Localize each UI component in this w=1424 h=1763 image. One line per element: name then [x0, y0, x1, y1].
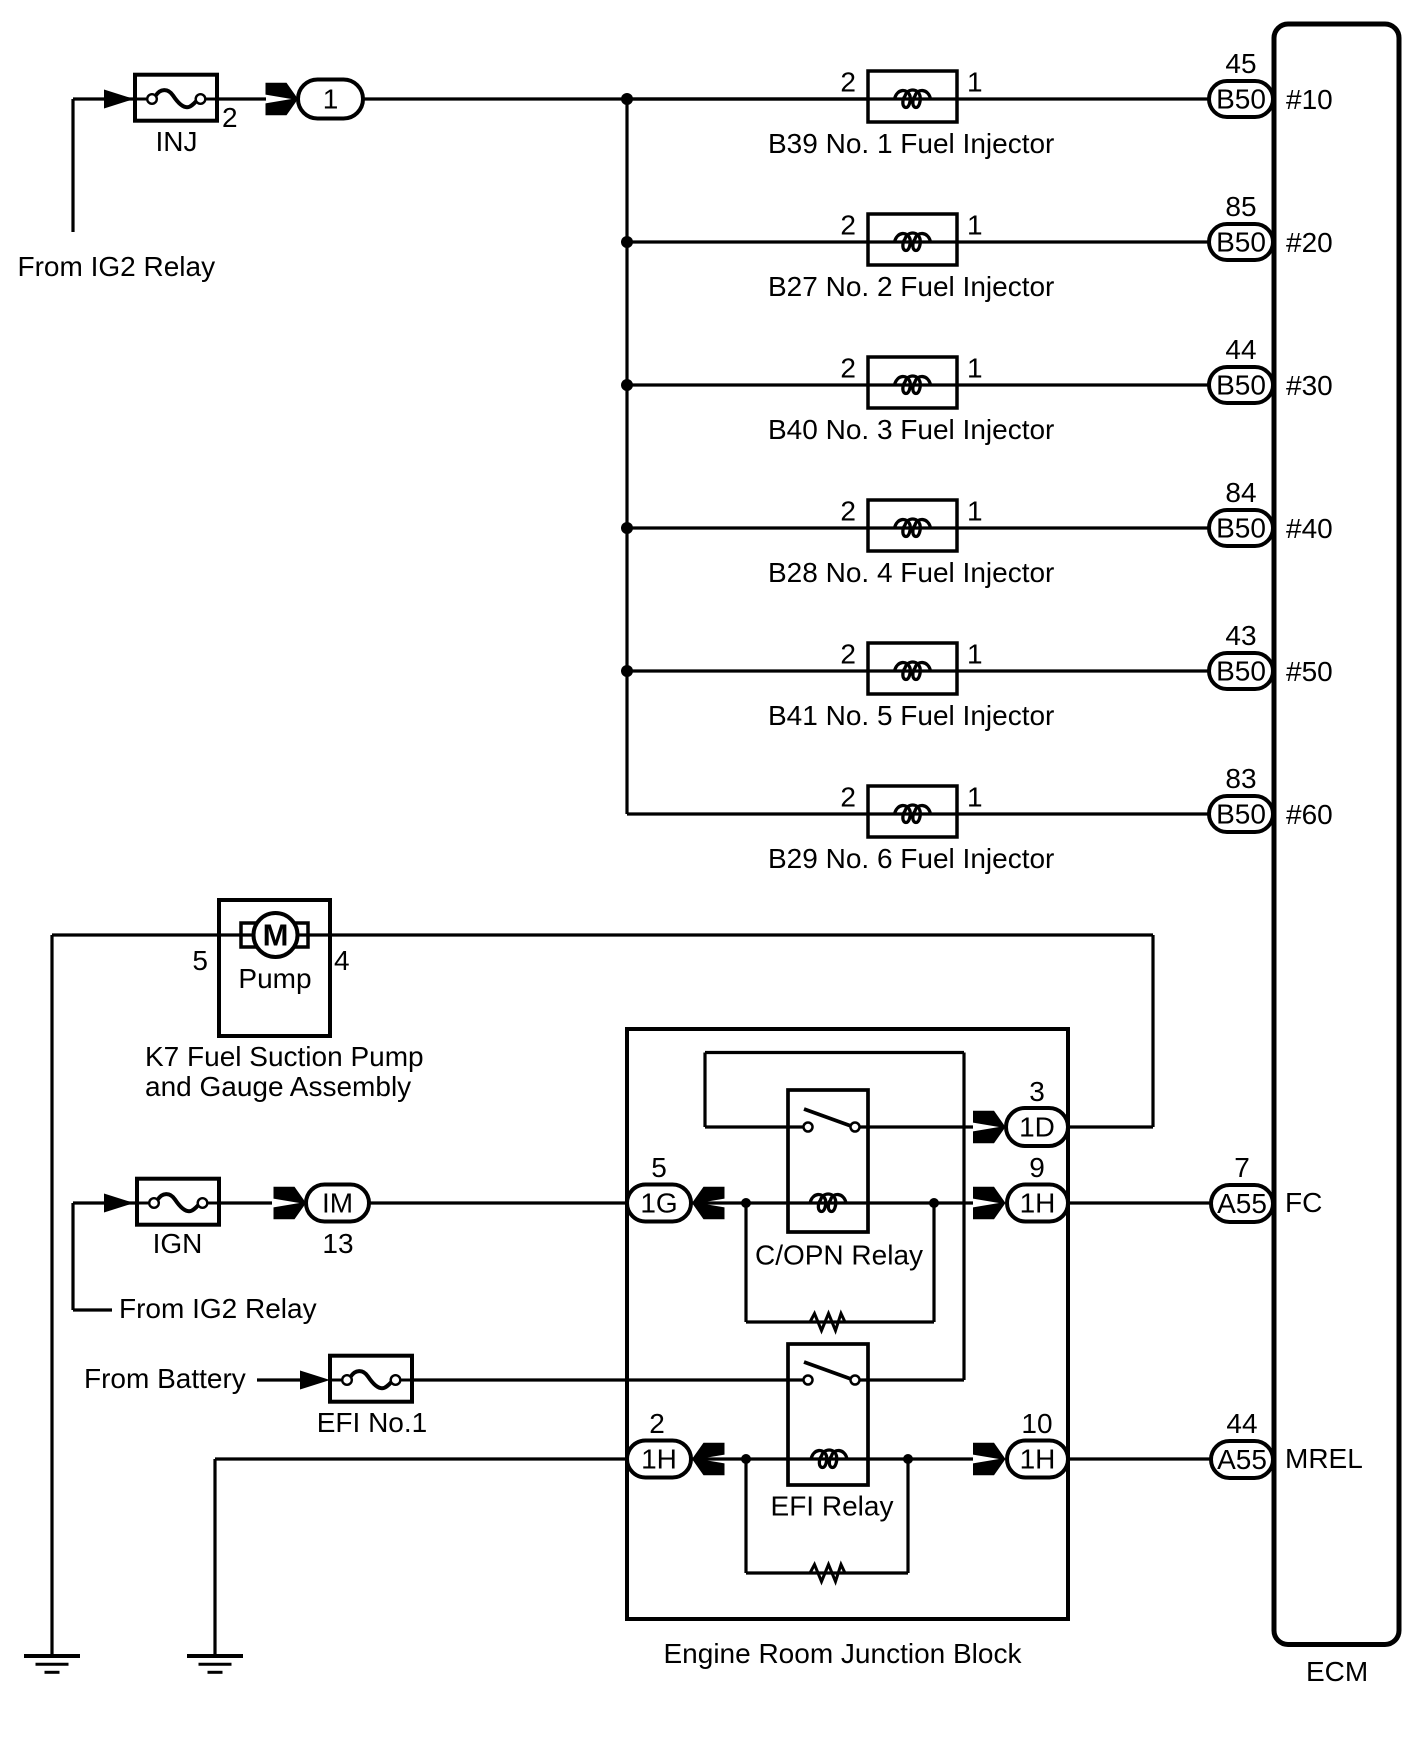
svg-text:B50: B50	[1216, 370, 1266, 401]
svg-text:A55: A55	[1217, 1444, 1267, 1475]
svg-text:1: 1	[967, 67, 983, 98]
svg-text:1: 1	[967, 782, 983, 813]
svg-text:10: 10	[1021, 1408, 1052, 1439]
svg-text:A55: A55	[1217, 1188, 1267, 1219]
svg-text:B50: B50	[1216, 799, 1266, 830]
svg-text:1: 1	[967, 210, 983, 241]
svg-text:1: 1	[967, 353, 983, 384]
svg-text:EFI No.1: EFI No.1	[317, 1407, 427, 1438]
svg-text:#40: #40	[1286, 513, 1333, 544]
svg-text:2: 2	[840, 353, 856, 384]
svg-text:B39 No. 1 Fuel Injector: B39 No. 1 Fuel Injector	[768, 128, 1054, 159]
svg-text:1: 1	[967, 496, 983, 527]
svg-text:B50: B50	[1216, 656, 1266, 687]
svg-text:Engine Room Junction Block: Engine Room Junction Block	[664, 1638, 1023, 1669]
svg-text:44: 44	[1226, 1408, 1257, 1439]
svg-text:5: 5	[192, 945, 208, 976]
svg-text:2: 2	[840, 639, 856, 670]
svg-text:B50: B50	[1216, 513, 1266, 544]
svg-text:2: 2	[649, 1408, 665, 1439]
svg-text:44: 44	[1225, 334, 1256, 365]
svg-text:C/OPN Relay: C/OPN Relay	[755, 1240, 923, 1271]
svg-text:B40 No. 3 Fuel Injector: B40 No. 3 Fuel Injector	[768, 414, 1054, 445]
svg-text:9: 9	[1029, 1152, 1045, 1183]
svg-text:43: 43	[1225, 620, 1256, 651]
svg-text:From Battery: From Battery	[84, 1363, 246, 1394]
svg-text:7: 7	[1234, 1152, 1250, 1183]
svg-text:B27 No. 2 Fuel Injector: B27 No. 2 Fuel Injector	[768, 271, 1054, 302]
svg-text:MREL: MREL	[1285, 1443, 1363, 1474]
svg-text:1H: 1H	[641, 1444, 677, 1475]
svg-text:83: 83	[1225, 763, 1256, 794]
svg-text:#50: #50	[1286, 656, 1333, 687]
svg-text:Pump: Pump	[238, 963, 311, 994]
svg-text:2: 2	[222, 102, 238, 133]
svg-text:1: 1	[967, 639, 983, 670]
svg-text:1: 1	[323, 84, 339, 115]
svg-text:K7 Fuel Suction Pump: K7 Fuel Suction Pump	[145, 1041, 424, 1072]
svg-text:EFI Relay: EFI Relay	[771, 1491, 894, 1522]
svg-text:2: 2	[840, 210, 856, 241]
svg-text:#30: #30	[1286, 370, 1333, 401]
svg-text:B28 No. 4 Fuel Injector: B28 No. 4 Fuel Injector	[768, 557, 1054, 588]
svg-text:B29 No. 6 Fuel Injector: B29 No. 6 Fuel Injector	[768, 843, 1054, 874]
svg-text:3: 3	[1029, 1076, 1045, 1107]
svg-text:1D: 1D	[1019, 1112, 1055, 1143]
svg-text:IM: IM	[322, 1188, 353, 1219]
svg-text:1H: 1H	[1020, 1444, 1056, 1475]
svg-text:B50: B50	[1216, 227, 1266, 258]
svg-text:2: 2	[840, 67, 856, 98]
svg-text:45: 45	[1225, 48, 1256, 79]
svg-text:2: 2	[840, 496, 856, 527]
svg-text:B50: B50	[1216, 84, 1266, 115]
svg-text:#10: #10	[1286, 84, 1333, 115]
svg-text:85: 85	[1225, 191, 1256, 222]
svg-text:FC: FC	[1285, 1187, 1322, 1218]
svg-text:IGN: IGN	[153, 1228, 203, 1259]
svg-text:84: 84	[1225, 477, 1256, 508]
svg-text:M: M	[263, 918, 289, 953]
svg-text:#60: #60	[1286, 799, 1333, 830]
svg-text:5: 5	[651, 1152, 667, 1183]
svg-text:#20: #20	[1286, 227, 1333, 258]
svg-text:ECM: ECM	[1306, 1656, 1368, 1687]
svg-text:13: 13	[322, 1228, 353, 1259]
svg-text:and Gauge Assembly: and Gauge Assembly	[145, 1071, 411, 1102]
svg-text:1H: 1H	[1020, 1188, 1056, 1219]
svg-text:From IG2 Relay: From IG2 Relay	[119, 1293, 317, 1324]
svg-text:From IG2 Relay: From IG2 Relay	[18, 251, 216, 282]
svg-text:B41 No. 5 Fuel Injector: B41 No. 5 Fuel Injector	[768, 700, 1054, 731]
svg-text:INJ: INJ	[156, 126, 198, 157]
svg-text:4: 4	[334, 945, 350, 976]
svg-text:2: 2	[840, 782, 856, 813]
svg-text:1G: 1G	[640, 1188, 677, 1219]
